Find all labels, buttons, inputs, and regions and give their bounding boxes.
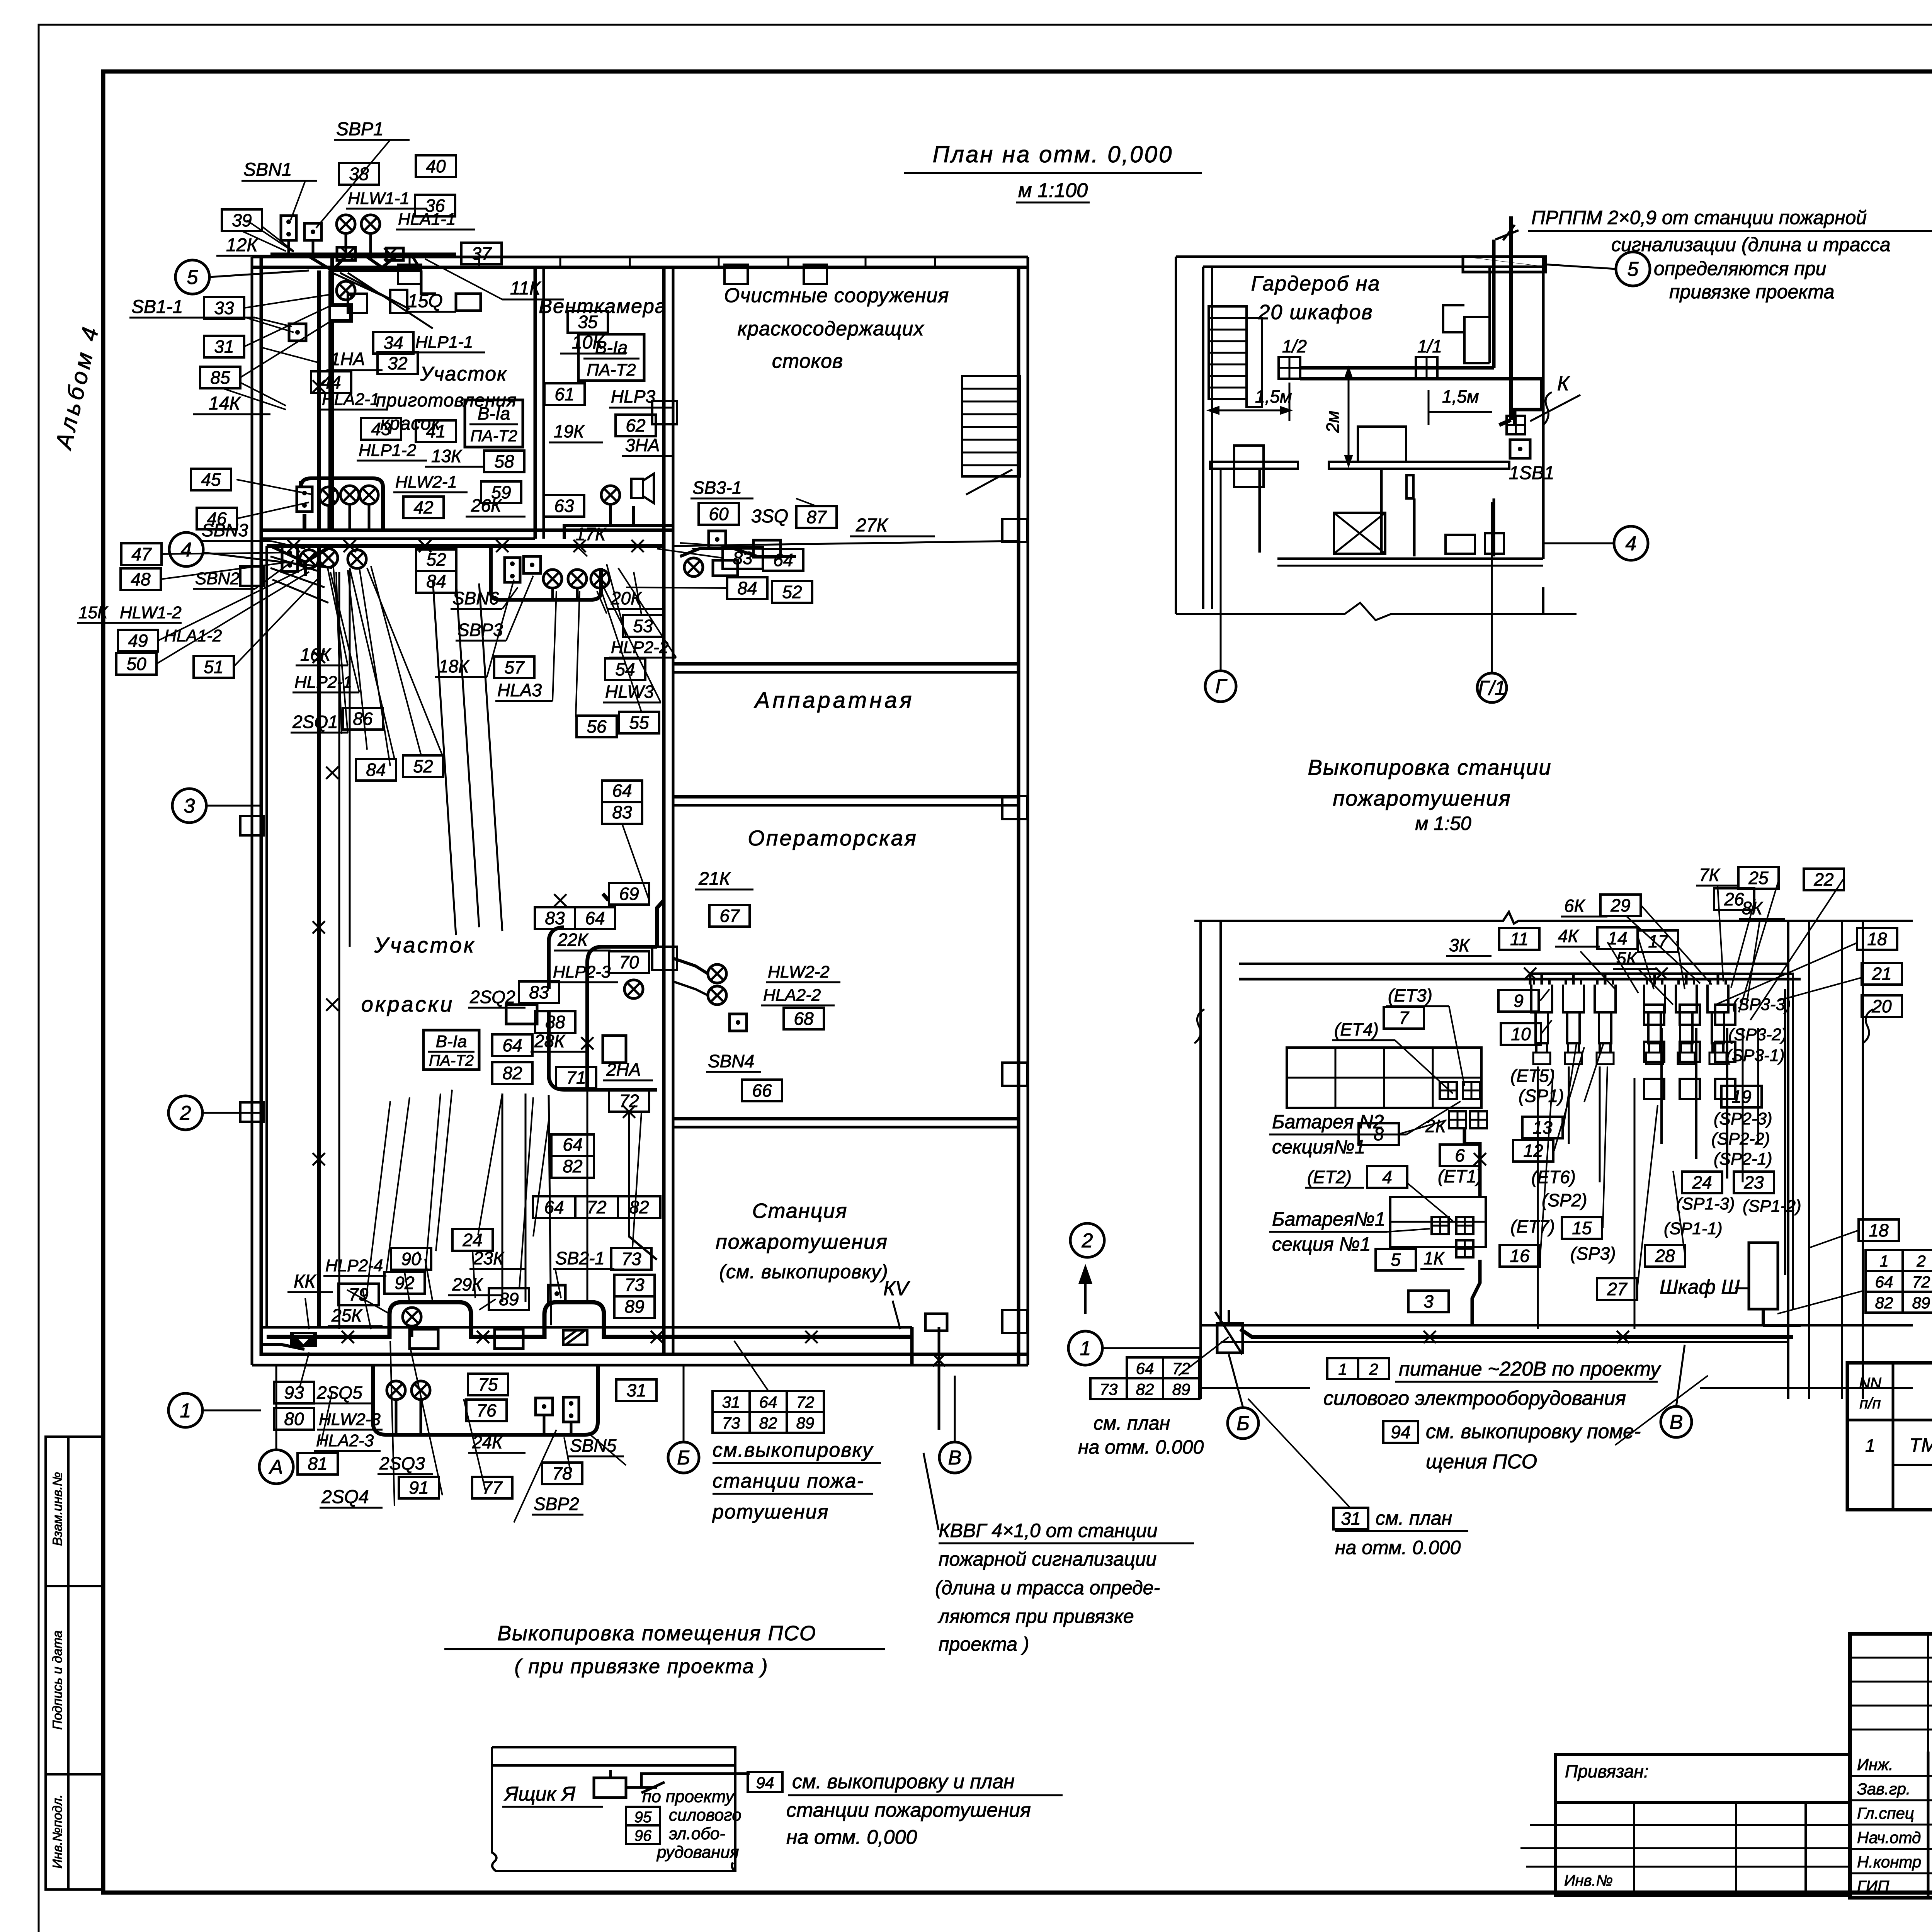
svg-text:75: 75	[478, 1374, 498, 1395]
dbox 64-82	[551, 1134, 594, 1178]
extra leader 13	[478, 1094, 502, 1235]
window mark 3	[719, 257, 788, 267]
leader cluster 9	[553, 591, 556, 701]
leader left 3	[158, 568, 305, 641]
svg-text:проекта ): проекта )	[939, 1633, 1029, 1655]
wall operatorskaya top b	[673, 804, 1019, 807]
svg-text:2SQ4: 2SQ4	[321, 1487, 369, 1507]
box 16	[1500, 1245, 1540, 1267]
wall fire-station top	[673, 1117, 1019, 1121]
fs leader 19	[1747, 919, 1760, 1005]
svg-text:69: 69	[619, 884, 639, 904]
svg-text:HLW1-2: HLW1-2	[120, 603, 182, 622]
junction 3SQ	[753, 540, 781, 557]
wall pier 1	[1002, 519, 1027, 542]
label HLP2-2 line	[609, 657, 676, 659]
lamp HLW2-1 c	[360, 486, 378, 504]
box 48	[121, 568, 161, 590]
fs wire battery	[1464, 1128, 1480, 1325]
svg-text:Инж.: Инж.	[1857, 1755, 1893, 1774]
box 70	[609, 951, 649, 973]
fs leader 4	[1554, 1047, 1584, 1151]
svg-text:HLW2-2: HLW2-2	[768, 963, 830, 981]
svg-text:64: 64	[759, 1393, 777, 1411]
junction box top	[337, 247, 355, 260]
junction tick 21	[1423, 1331, 1436, 1343]
dim arrow l2	[1281, 407, 1291, 414]
box 63	[544, 495, 584, 517]
fs wire drop e5	[1568, 1066, 1570, 1144]
box 40	[416, 155, 456, 177]
svg-text:2: 2	[1082, 1230, 1093, 1252]
svg-text:7К: 7К	[1699, 865, 1721, 885]
svg-text:станции пожа-: станции пожа-	[713, 1470, 864, 1492]
gard lockers	[1209, 306, 1247, 399]
svg-text:23К: 23К	[473, 1248, 505, 1268]
junction tick 26	[326, 767, 338, 779]
svg-text:15: 15	[1572, 1218, 1592, 1238]
grid leader 2	[202, 1112, 261, 1114]
wall bottom inner	[261, 1353, 1028, 1356]
fs wire drop e3	[1757, 1028, 1759, 1144]
leader diag bottom3	[464, 1399, 485, 1490]
fs corridor a	[1201, 1324, 1913, 1327]
leader SB1-1	[255, 318, 292, 327]
wire vent bus	[564, 526, 672, 539]
label 19K line	[549, 442, 603, 444]
gard locker shelf 2	[1209, 329, 1247, 331]
fs right wall c	[1841, 921, 1843, 1399]
device 2HA	[603, 1036, 626, 1063]
label 1K line	[1420, 1268, 1464, 1270]
pso box 95	[626, 1807, 660, 1826]
junction tick 17	[581, 1037, 594, 1049]
wire right cluster	[680, 549, 796, 556]
gard leader 5	[1543, 264, 1616, 269]
fs right wall d	[1862, 921, 1864, 1399]
svg-text:2SQ1: 2SQ1	[292, 712, 338, 732]
fs leader 11	[1607, 942, 1638, 993]
extra leader 5	[220, 388, 286, 410]
stair tread 1	[962, 388, 1020, 390]
extra leader 6	[243, 317, 294, 332]
box 18b	[1859, 1219, 1899, 1241]
svg-text:52: 52	[413, 756, 433, 776]
svg-text:п/п: п/п	[1859, 1395, 1881, 1412]
leader left 9	[255, 560, 294, 589]
wall pier 3	[1002, 1063, 1027, 1086]
label HLW1-2 line	[77, 622, 182, 624]
label 3HA line	[622, 455, 672, 457]
svg-text:2м: 2м	[1323, 411, 1343, 433]
leader 21	[1777, 978, 1862, 1001]
wire top fan a	[332, 273, 386, 298]
label 15Q line	[406, 311, 456, 313]
title v0 top	[1927, 1634, 1929, 1752]
dim arrow 2m a	[1345, 368, 1352, 378]
label HLA2-1 line	[320, 409, 386, 411]
gard smallrect 2	[1485, 533, 1504, 554]
svg-text:58: 58	[494, 451, 514, 471]
wire left fan c	[272, 580, 328, 603]
junction tick 15	[651, 1331, 663, 1343]
smoke detector module 4	[1644, 979, 1665, 1053]
detector terminal 3	[1597, 1053, 1614, 1064]
fs bottom wall left	[1201, 1387, 1310, 1389]
svg-text:72: 72	[587, 1197, 606, 1217]
label SB1-1 line	[129, 317, 255, 319]
fs circle 2	[1070, 1223, 1104, 1257]
box 39	[222, 209, 262, 231]
box 34	[373, 332, 413, 354]
box 44	[311, 371, 351, 393]
fs leader 8	[1673, 1171, 1685, 1256]
pushbutton SBN4	[730, 1014, 747, 1031]
box 82a	[492, 1062, 532, 1084]
box 26	[1714, 888, 1754, 910]
label HLA2-2 line	[761, 1005, 835, 1007]
label SBN3 line	[200, 540, 270, 542]
svg-text:ПРППМ 2×0,9 от станции пожа: ПРППМ 2×0,9 от станции пожарной	[1531, 207, 1867, 228]
lamp row2 a	[300, 550, 318, 568]
detector terminal 4	[1646, 1053, 1663, 1064]
leader diag bottom1	[390, 1341, 395, 1506]
box 75	[468, 1374, 508, 1395]
label 11K line	[502, 299, 564, 301]
svg-text:19: 19	[1731, 1087, 1751, 1107]
fs leader 18	[1731, 899, 1755, 988]
SP unit r1c1	[1644, 1005, 1664, 1025]
gard top pier	[1463, 257, 1546, 272]
wire drop HLA1-1	[369, 233, 372, 254]
leader cluster 3	[330, 572, 359, 692]
extra leader 7	[242, 231, 286, 251]
svg-text:5: 5	[1628, 258, 1639, 281]
wall top outer	[252, 256, 1028, 259]
wire drops bottom	[396, 1326, 571, 1435]
fs wire cabinet	[1763, 1309, 1801, 1325]
corridor line bottom	[261, 1326, 912, 1329]
gard wire drop	[1499, 216, 1511, 425]
extra leader 18	[692, 549, 783, 549]
svg-text:20: 20	[1871, 996, 1892, 1016]
fs wire drop e1	[1634, 1078, 1636, 1329]
box 72a	[609, 1090, 649, 1112]
svg-text:см.выкопировку: см.выкопировку	[713, 1439, 874, 1461]
svg-text:21К: 21К	[698, 869, 731, 889]
extra leader 21	[321, 1391, 332, 1445]
svg-text:72: 72	[1912, 1273, 1930, 1291]
junction tick 7	[573, 540, 586, 552]
label 16K line	[296, 665, 348, 667]
grid leader A	[276, 1365, 277, 1450]
wall main vertical	[662, 267, 666, 1354]
battery N1 label line	[1269, 1231, 1387, 1233]
label 3K line	[1446, 955, 1492, 957]
box 50	[116, 653, 156, 675]
box 36	[415, 195, 455, 216]
svg-text:82: 82	[629, 1197, 649, 1217]
svg-text:пожарной сигнализации: пожарной сигнализации	[939, 1548, 1156, 1570]
gard smallrect 1	[1446, 535, 1475, 554]
svg-text:силового: силового	[669, 1806, 742, 1825]
extra leader 9	[436, 1090, 452, 1251]
box 31b	[616, 1379, 656, 1401]
svg-text:25: 25	[1748, 868, 1769, 888]
svg-text:на отм. 0.000: на отм. 0.000	[1335, 1537, 1461, 1558]
stair diagonal	[966, 469, 1012, 495]
lamp row2 b	[319, 549, 338, 567]
svg-text:27: 27	[1607, 1279, 1628, 1299]
box 27	[1597, 1278, 1637, 1300]
gard vertline r	[1493, 498, 1495, 556]
gard cross b	[1334, 513, 1385, 554]
left table row 2	[1555, 1847, 1850, 1849]
leader fan tl 2	[244, 305, 332, 347]
cabinet Shkaf	[1749, 1243, 1778, 1309]
pushbutton SB1-1	[289, 324, 306, 341]
label SBN2 line	[193, 588, 255, 590]
wire station feed	[629, 1112, 657, 1260]
label 14K line	[193, 413, 270, 415]
gard upper cupboard	[1443, 267, 1490, 363]
extra leader 17	[680, 543, 743, 547]
svg-text:В: В	[1670, 1411, 1683, 1434]
svg-text:73: 73	[1100, 1380, 1118, 1398]
svg-text:см. выкопировку и план: см. выкопировку и план	[792, 1770, 1015, 1793]
fs sp wires	[1662, 974, 1793, 1310]
label 27K line	[850, 536, 935, 537]
leader ET2-4	[1406, 1182, 1453, 1221]
leader fan bl 6	[473, 1251, 475, 1298]
extra leader 1	[336, 572, 342, 734]
fs leader 2	[1541, 1020, 1552, 1034]
black triangle KK	[291, 1333, 316, 1346]
box 23	[1734, 1172, 1774, 1193]
box 60	[699, 503, 739, 525]
svg-text:12: 12	[1523, 1141, 1543, 1161]
box K	[1507, 416, 1525, 434]
box 81	[298, 1453, 338, 1475]
svg-text:48: 48	[131, 569, 151, 589]
svg-text:36: 36	[425, 196, 445, 216]
svg-text:4: 4	[1382, 1167, 1392, 1187]
leader cluster 13	[618, 568, 676, 658]
box 18a	[1857, 928, 1897, 950]
box 88	[535, 1011, 575, 1033]
leader cluster 14	[607, 564, 626, 637]
label SBP2 line	[532, 1514, 583, 1516]
SP unit r3c2	[1680, 1079, 1700, 1099]
fs leader 14	[1638, 969, 1673, 1005]
leader cluster 16	[575, 545, 587, 556]
label 1HA line	[327, 369, 383, 371]
box 41	[416, 420, 456, 442]
batt N1 conn 2	[1456, 1217, 1473, 1234]
stub row a	[1530, 1824, 1555, 1826]
svg-text:3НА: 3НА	[625, 435, 660, 455]
pso box 94	[748, 1772, 782, 1792]
gard leader G	[1220, 469, 1222, 671]
grid circle 3	[172, 789, 206, 823]
label SBP1 line	[334, 139, 410, 141]
junction tick 16	[805, 1331, 818, 1343]
svg-text:1НА: 1НА	[330, 349, 365, 369]
class box B-Ia okraska	[423, 1030, 479, 1070]
wall fire-station top b	[673, 1126, 1019, 1129]
svg-text:3SQ: 3SQ	[751, 506, 788, 527]
dbox 52-84	[416, 549, 456, 593]
svg-text:64: 64	[563, 1134, 582, 1155]
gard top wall a	[1176, 255, 1546, 258]
label HLA3 line	[495, 700, 553, 702]
label 2SQ4 line	[320, 1507, 383, 1509]
wire loop prep	[301, 478, 383, 530]
grid circle 4	[169, 532, 203, 566]
svg-text:37: 37	[471, 243, 492, 264]
svg-text:HLW1-1: HLW1-1	[348, 189, 410, 208]
gard locker shelf 7	[1209, 387, 1247, 389]
svg-text:64: 64	[502, 1035, 522, 1055]
wire trunk left low	[317, 546, 321, 1327]
smoke detector module 2	[1563, 979, 1584, 1053]
svg-text:(ЕТ5): (ЕТ5)	[1510, 1066, 1555, 1086]
svg-text:см. выкопировку поме-: см. выкопировку поме-	[1426, 1420, 1641, 1443]
left table row 3	[1555, 1866, 1850, 1868]
svg-text:87: 87	[806, 507, 827, 527]
dim line right	[1429, 411, 1492, 413]
wall pilaster 4	[240, 816, 264, 835]
svg-text:89: 89	[624, 1296, 644, 1316]
box 8	[1359, 1123, 1399, 1145]
lamp mid c	[591, 570, 609, 588]
svg-text:82: 82	[1875, 1294, 1893, 1312]
wall pilaster 3	[804, 265, 827, 284]
svg-text:Станция: Станция	[752, 1199, 848, 1223]
wire okraska riser	[657, 900, 664, 947]
svg-text:2SQ5: 2SQ5	[316, 1383, 362, 1403]
extra leader 12	[367, 1101, 390, 1291]
svg-text:28: 28	[1655, 1246, 1675, 1266]
box 12	[1513, 1140, 1553, 1162]
wall below paint-prep b	[261, 537, 535, 540]
title left row 4	[1850, 1848, 1932, 1850]
battery N2 v1	[1335, 1048, 1337, 1108]
smoke detector module 6	[1708, 979, 1728, 1053]
svg-text:HLР2-4: HLР2-4	[325, 1256, 383, 1275]
SP unit r1c3	[1715, 1005, 1735, 1025]
dbox 73-89	[614, 1275, 655, 1318]
svg-text:31: 31	[214, 337, 234, 357]
box 7	[1384, 1007, 1424, 1029]
leader KVVG	[923, 1453, 939, 1530]
label HLW2-2 line	[766, 981, 840, 983]
svg-text:96: 96	[634, 1827, 652, 1844]
leader fan tl 3	[240, 321, 332, 378]
svg-text:эл.обо-: эл.обо-	[669, 1824, 725, 1843]
gard break bottom	[1176, 603, 1577, 620]
gard locker2	[1247, 318, 1262, 407]
box 31a	[204, 336, 244, 357]
leader cluster 15	[597, 591, 607, 614]
svg-text:(SР2): (SР2)	[1542, 1190, 1587, 1210]
svg-text:73: 73	[722, 1414, 740, 1432]
label 8K line	[1739, 918, 1785, 920]
leader cluster 7	[506, 576, 533, 641]
pushbutton SBP3	[524, 556, 541, 573]
svg-text:89: 89	[1172, 1380, 1190, 1398]
lamp bottom2	[387, 1381, 405, 1400]
junction tick 11	[313, 921, 325, 934]
box 92	[384, 1272, 425, 1294]
wire cluster top zig2	[421, 270, 436, 294]
grid leader 3	[206, 805, 261, 807]
box 33	[204, 297, 244, 319]
fs right wall b	[1808, 921, 1810, 1399]
box 54	[605, 658, 645, 680]
leader KK	[305, 1298, 309, 1329]
leader left 7	[237, 502, 309, 519]
label SBN4 line	[706, 1071, 761, 1073]
gard locker shelf 5	[1209, 364, 1247, 366]
leader SBP1	[316, 140, 390, 228]
privyazan cell	[1555, 1754, 1850, 1803]
binding strip cell Inv	[46, 1774, 103, 1889]
plan title underline	[904, 172, 1202, 174]
svg-text:Выкопировка станции: Выкопировка станции	[1308, 755, 1551, 779]
box 71	[556, 1067, 596, 1088]
wire vert mid2	[525, 1094, 527, 1302]
svg-text:SBN5: SBN5	[570, 1435, 617, 1456]
battery N2 v3	[1432, 1048, 1434, 1108]
fs mini table2	[1090, 1378, 1199, 1399]
gard right wall low	[1542, 587, 1544, 614]
svg-text:5: 5	[1391, 1250, 1401, 1270]
box 83b	[519, 981, 559, 1003]
svg-text:Взам.инв.№: Взам.инв.№	[50, 1472, 65, 1546]
fs see plan b1 line	[1335, 1530, 1468, 1532]
box 25	[1738, 867, 1779, 889]
SP unit r2c2	[1680, 1042, 1700, 1062]
svg-text:63: 63	[554, 496, 574, 516]
svg-text:Выкопировка помещения ПС: Выкопировка помещения ПСО	[497, 1622, 816, 1645]
svg-text:10: 10	[1511, 1024, 1531, 1044]
svg-text:73: 73	[621, 1249, 641, 1269]
svg-text:29К: 29К	[452, 1274, 483, 1294]
svg-text:22: 22	[1813, 869, 1833, 889]
batt N1 conn 3	[1456, 1240, 1473, 1257]
svg-text:95: 95	[634, 1809, 652, 1826]
smoke detector module 3	[1595, 979, 1616, 1053]
svg-text:SBР3: SBР3	[457, 620, 503, 640]
leader 64-83	[622, 824, 649, 900]
svg-text:35: 35	[578, 312, 598, 332]
svg-text:25К: 25К	[331, 1305, 363, 1325]
gard wire main	[1300, 240, 1542, 425]
svg-text:(SР3): (SР3)	[1570, 1243, 1616, 1264]
box 24b	[1682, 1172, 1722, 1193]
wall pier 5	[652, 401, 677, 424]
junction right	[713, 560, 738, 576]
svg-text:рудования: рудования	[656, 1843, 739, 1862]
dim arrow 2m b	[1345, 456, 1352, 466]
label HLA1-1 line	[396, 229, 475, 231]
gard cross table	[1334, 513, 1385, 554]
wire drops row2	[309, 546, 357, 550]
box 5	[1376, 1249, 1416, 1270]
device box 1HA	[456, 294, 481, 311]
svg-text:Шкаф Ш: Шкаф Ш	[1660, 1276, 1740, 1298]
